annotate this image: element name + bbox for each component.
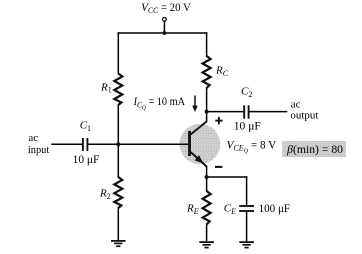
svg-text:10 μF: 10 μF — [234, 118, 261, 132]
svg-text:RE: RE — [186, 203, 199, 216]
svg-text:C1: C1 — [80, 120, 91, 133]
svg-text:input: input — [28, 144, 49, 156]
svg-text:C2: C2 — [241, 86, 252, 99]
svg-text:VCEQ = 8 V: VCEQ = 8 V — [227, 137, 277, 154]
svg-text:ac: ac — [28, 132, 38, 144]
svg-text:ICQ = 10 mA: ICQ = 10 mA — [133, 94, 186, 111]
svg-text:β(min) = 80: β(min) = 80 — [286, 144, 343, 156]
svg-text:RC: RC — [215, 65, 229, 78]
svg-text:CE: CE — [224, 203, 236, 216]
svg-text:output: output — [290, 109, 318, 121]
svg-text:R2: R2 — [99, 188, 111, 201]
svg-text:10 μF: 10 μF — [73, 152, 100, 166]
svg-text:VCC = 20 V: VCC = 20 V — [141, 0, 191, 15]
svg-text:R1: R1 — [100, 81, 112, 94]
svg-text:100 μF: 100 μF — [259, 201, 291, 215]
